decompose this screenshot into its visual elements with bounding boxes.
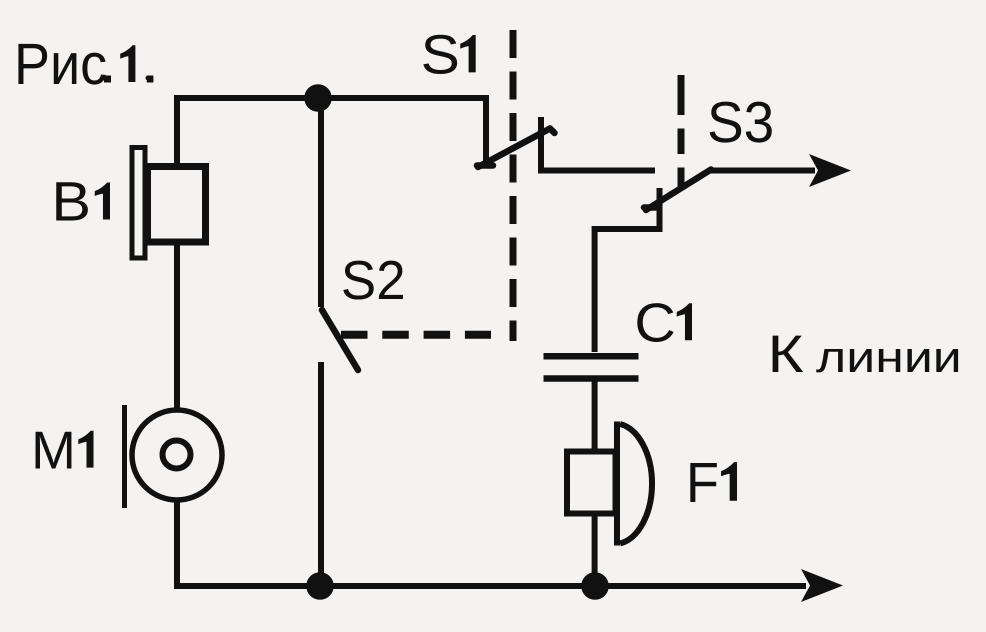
svg-text:F: F — [686, 452, 719, 515]
svg-text:линии: линии — [816, 333, 962, 382]
svg-text:S2: S2 — [341, 250, 406, 311]
svg-text:C: C — [634, 293, 675, 354]
svg-text:M: M — [31, 420, 76, 480]
svg-text:К: К — [767, 324, 803, 383]
svg-text:Рис: Рис — [14, 32, 107, 97]
svg-text:B: B — [51, 171, 91, 233]
svg-text:S: S — [421, 24, 460, 86]
svg-text:S3: S3 — [707, 89, 774, 154]
